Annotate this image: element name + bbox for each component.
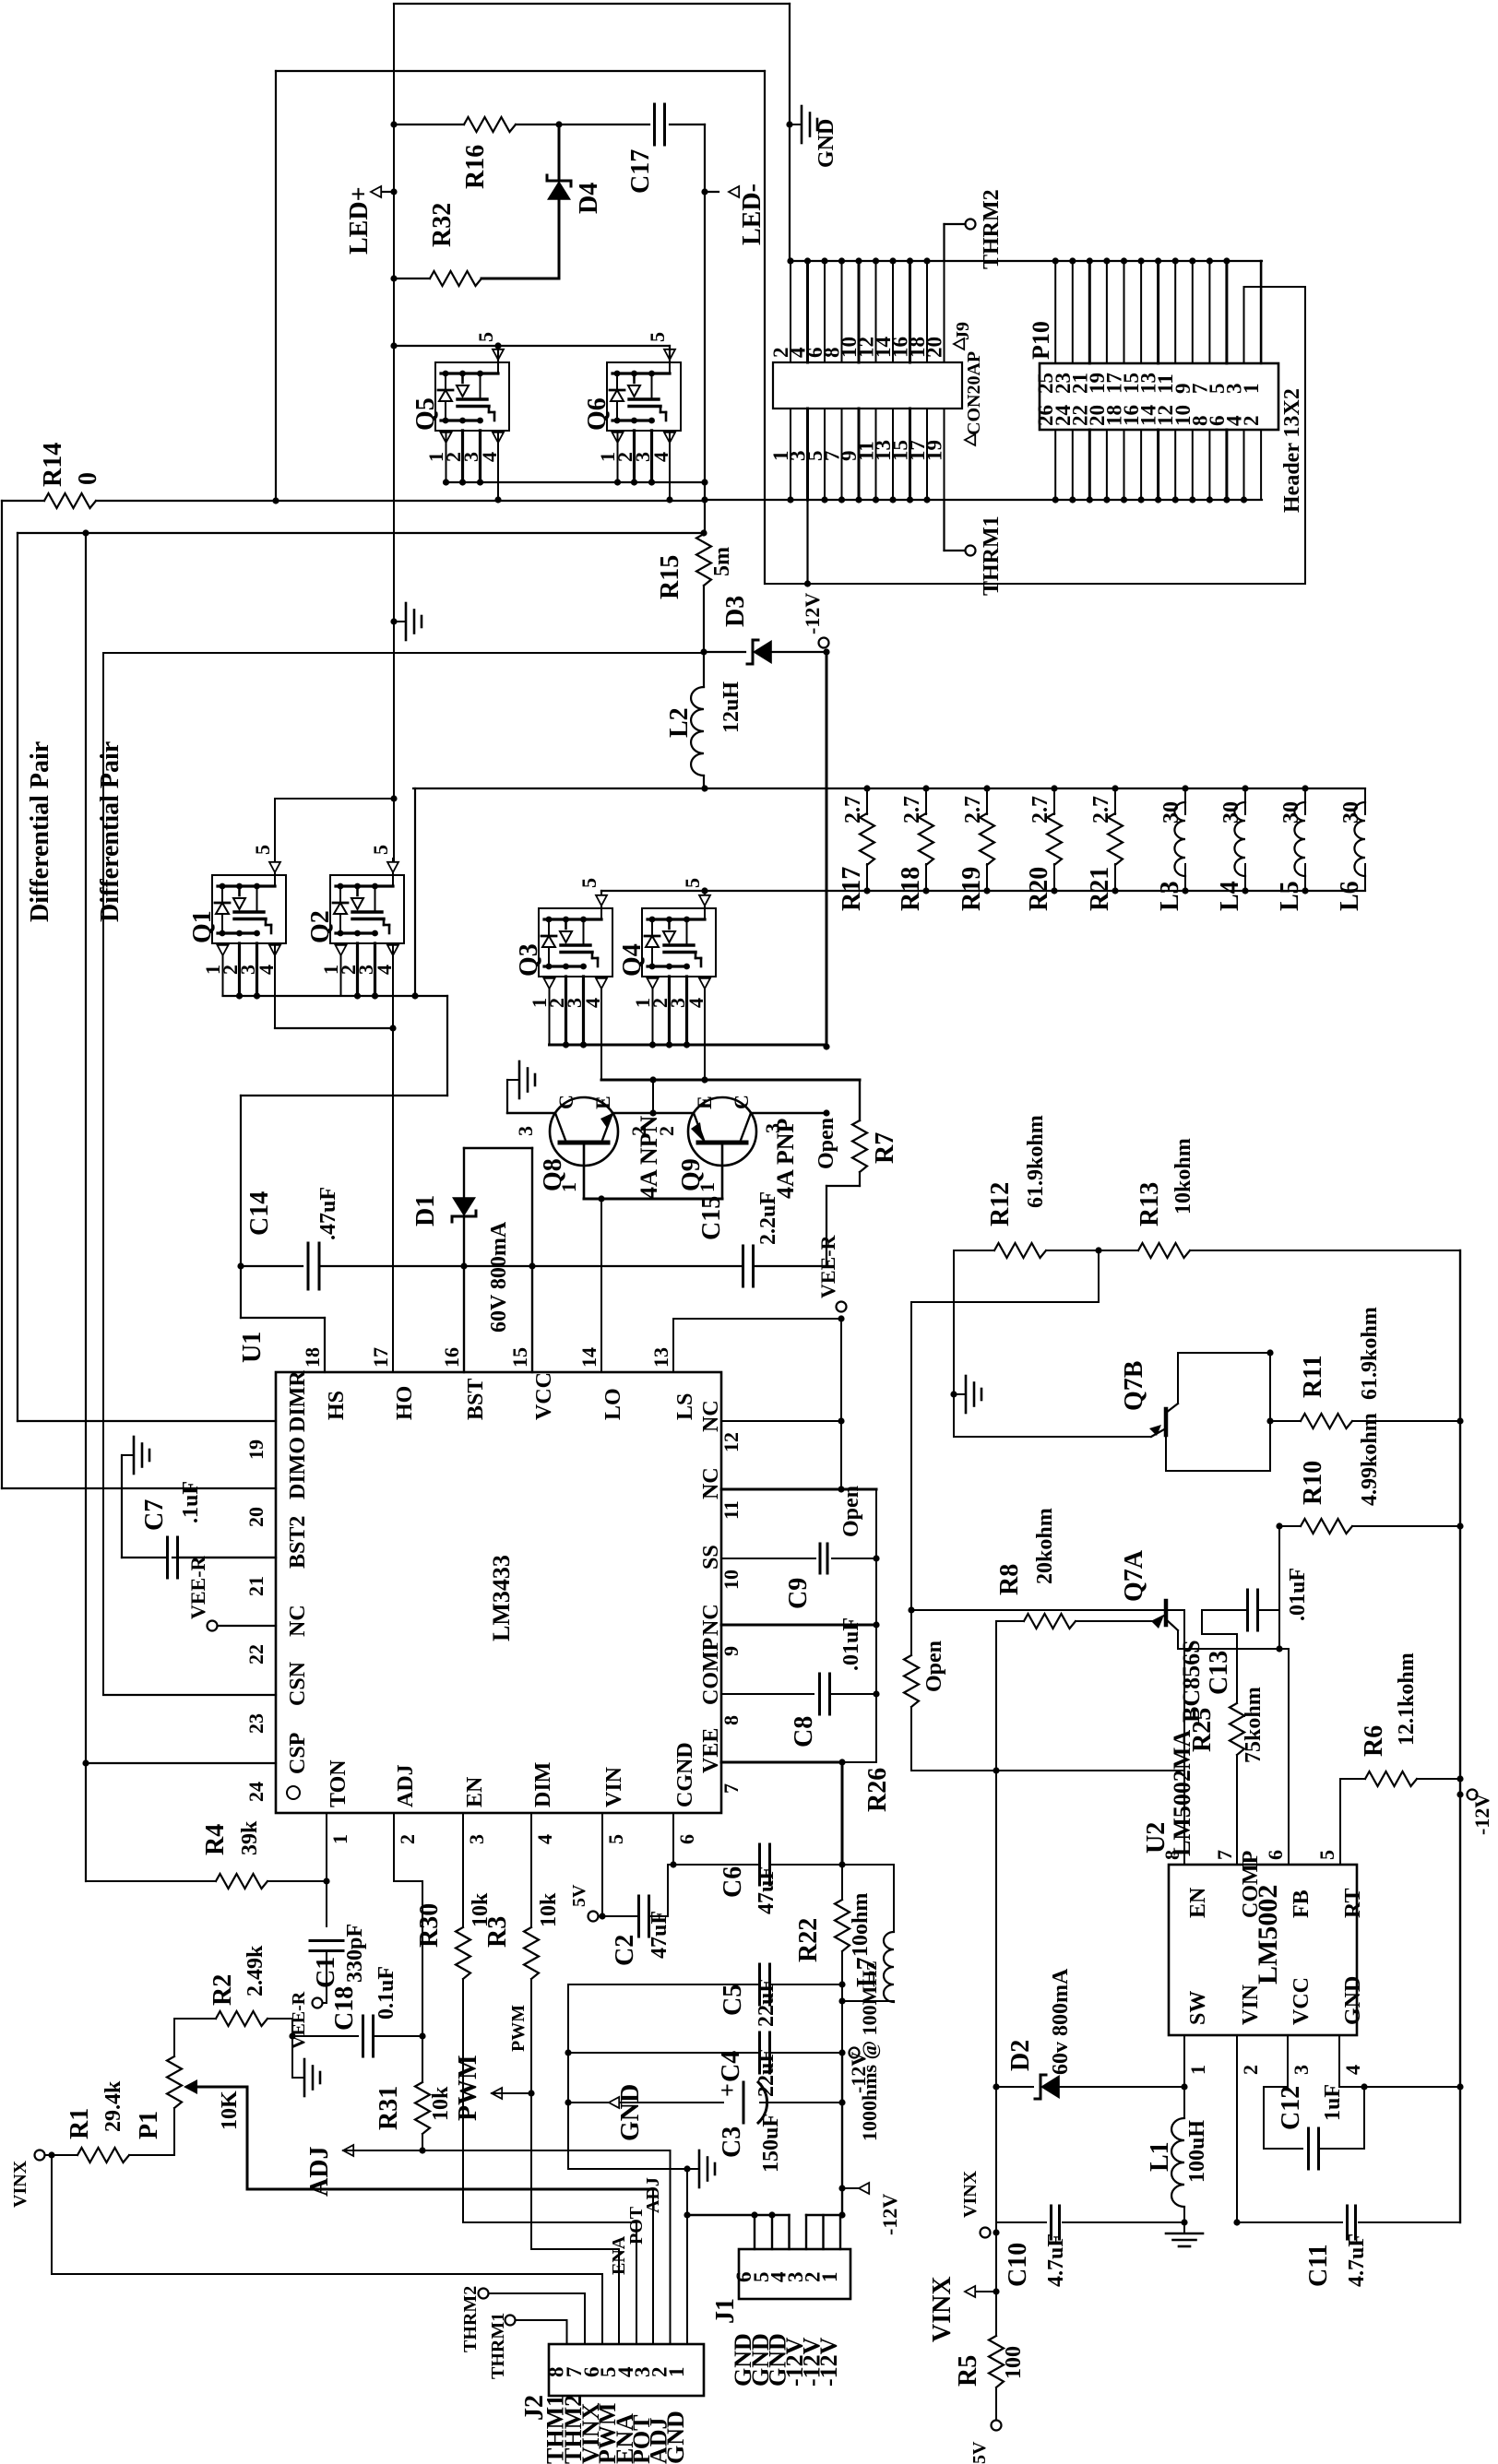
svg-text:Open: Open — [839, 1486, 863, 1537]
svg-text:21: 21 — [244, 1576, 267, 1596]
svg-text:4.7uF: 4.7uF — [1044, 2233, 1068, 2287]
wire VIN — [1236, 2035, 1238, 2222]
ground at Q7B emitter — [950, 1391, 957, 1397]
wire LS to VEE-R — [672, 1319, 674, 1372]
svg-text:61.9kohm: 61.9kohm — [1358, 1307, 1382, 1400]
wire DIMO — [2, 1487, 276, 1489]
svg-text:R8: R8 — [995, 1564, 1024, 1595]
svg-text:THRM1: THRM1 — [488, 2313, 508, 2379]
svg-text:-12V: -12V — [1470, 1794, 1493, 1835]
svg-text:R7: R7 — [871, 1132, 899, 1164]
svg-text:-12V: -12V — [801, 593, 824, 634]
svg-text:13: 13 — [649, 1347, 672, 1368]
svg-text:R4: R4 — [201, 1824, 230, 1855]
svg-text:1: 1 — [818, 2272, 841, 2283]
svg-text:.01uF: .01uF — [839, 1617, 863, 1671]
svg-text:2.49k: 2.49k — [244, 1945, 267, 1996]
wire GND to J1 — [687, 2214, 790, 2216]
resistor R12 — [994, 1243, 1046, 1258]
terminal -12V — [1468, 1790, 1478, 1800]
svg-text:R16: R16 — [461, 145, 490, 189]
inductor L2 — [691, 687, 704, 776]
resistor R11 — [1270, 1420, 1301, 1422]
capacitor C13 — [1246, 1590, 1249, 1630]
svg-text:C18: C18 — [330, 1986, 359, 2031]
svg-text:CGND: CGND — [673, 1742, 697, 1807]
svg-text:LO: LO — [601, 1388, 625, 1420]
svg-text:L4: L4 — [1216, 881, 1244, 911]
capacitor C1 — [310, 1939, 343, 1942]
wire CSP sense — [18, 532, 704, 534]
svg-text:ADJ: ADJ — [394, 1764, 418, 1807]
svg-text:COMP: COMP — [699, 1638, 723, 1705]
svg-text:C10: C10 — [1004, 2243, 1032, 2287]
svg-text:PWM: PWM — [508, 2005, 529, 2052]
transistor Q7B — [1164, 1409, 1169, 1435]
svg-text:J2: J2 — [520, 2395, 549, 2421]
resistor R30 — [462, 1842, 464, 1927]
svg-text:12: 12 — [719, 1432, 743, 1452]
terminal VINX — [35, 2150, 45, 2161]
wire P10 pin3 route — [1243, 287, 1245, 363]
svg-text:VCC: VCC — [1290, 1977, 1314, 2025]
svg-text:.47uF: .47uF — [316, 1187, 340, 1240]
svg-text:Q8: Q8 — [539, 1158, 567, 1191]
svg-text:4: 4 — [1341, 2065, 1364, 2075]
svg-text:ADJ: ADJ — [643, 2177, 663, 2213]
svg-text:1000hms @ 100MHz: 1000hms @ 100MHz — [858, 1961, 881, 2141]
svg-text:5: 5 — [1315, 1850, 1338, 1860]
svg-text:10k: 10k — [429, 2086, 453, 2121]
svg-text:C3: C3 — [718, 2126, 746, 2158]
svg-text:23: 23 — [244, 1713, 267, 1734]
wire VINX to J2 — [51, 2155, 53, 2274]
op-amp U1 LM3433 — [276, 1372, 721, 1813]
svg-text:16: 16 — [440, 1347, 463, 1368]
svg-text:2: 2 — [396, 1834, 419, 1844]
wire base drive — [584, 1198, 722, 1201]
svg-text:D2: D2 — [1006, 2040, 1035, 2071]
svg-text:ADJ: ADJ — [305, 2147, 334, 2197]
terminal THRM1 at J2 — [566, 2320, 568, 2344]
wire DIMR — [18, 1420, 276, 1422]
svg-text:-12V: -12V — [878, 2194, 901, 2235]
svg-text:Q1: Q1 — [188, 910, 217, 943]
svg-text:19: 19 — [923, 440, 946, 461]
svg-text:C12: C12 — [1277, 2086, 1305, 2130]
svg-text:R10: R10 — [1299, 1461, 1327, 1505]
svg-text:E: E — [693, 1096, 716, 1109]
resistor R13 — [1138, 1243, 1190, 1258]
svg-text:EN: EN — [1186, 1887, 1210, 1918]
svg-text:R21: R21 — [1086, 867, 1114, 911]
wire -12V to J1 — [841, 2053, 843, 2215]
svg-text:5: 5 — [577, 878, 600, 888]
svg-text:NC: NC — [699, 1467, 723, 1499]
svg-text:Q7A: Q7A — [1120, 1549, 1148, 1602]
svg-text:12.1kohm: 12.1kohm — [1395, 1653, 1419, 1746]
svg-text:330pF: 330pF — [343, 1924, 367, 1983]
inductor L7 — [884, 1932, 894, 2002]
svg-text:U2: U2 — [1142, 1822, 1171, 1854]
wire -12V input row — [103, 652, 704, 654]
svg-text:TON: TON — [327, 1759, 351, 1807]
svg-text:5: 5 — [369, 845, 392, 855]
svg-text:J1: J1 — [711, 2298, 740, 2324]
resistor R14 — [2, 500, 44, 502]
svg-text:30: 30 — [1339, 801, 1363, 823]
svg-text:R11: R11 — [1299, 1355, 1327, 1398]
wire P10 pin1 — [1260, 261, 1263, 363]
svg-text:3: 3 — [465, 1834, 488, 1844]
svg-text:C15: C15 — [697, 1196, 726, 1240]
svg-text:19: 19 — [244, 1439, 267, 1460]
svg-text:GND: GND — [814, 119, 838, 168]
svg-text:PWM: PWM — [454, 2055, 482, 2121]
svg-text:R22: R22 — [794, 1918, 823, 1962]
svg-text:C5: C5 — [719, 1984, 747, 2016]
svg-text:11: 11 — [719, 1500, 743, 1520]
ground — [786, 121, 792, 127]
svg-text:R31: R31 — [374, 2086, 403, 2130]
svg-text:Differential Pair: Differential Pair — [96, 741, 125, 922]
svg-text:L2: L2 — [665, 707, 694, 738]
capacitor C11 — [1237, 2221, 1342, 2223]
wire CSN — [103, 1694, 276, 1696]
svg-text:R18: R18 — [897, 867, 925, 911]
op-amp U2 LM5002 — [1169, 1865, 1357, 2035]
svg-text:R15: R15 — [656, 555, 684, 599]
transistor Q6 — [607, 362, 681, 431]
terminal VEE-R pin22 — [208, 1621, 218, 1631]
junction LED- bus — [701, 496, 707, 503]
svg-text:4: 4 — [684, 998, 707, 1008]
wire HS sense — [241, 1095, 447, 1096]
svg-text:VIN: VIN — [602, 1766, 626, 1807]
svg-text:U1: U1 — [238, 1332, 267, 1363]
svg-text:10K: 10K — [218, 2091, 242, 2130]
svg-text:2.2uF: 2.2uF — [756, 1191, 780, 1245]
svg-text:C2: C2 — [611, 1935, 639, 1966]
resistor R16 — [394, 124, 464, 125]
resistor R22 — [835, 1900, 850, 1951]
svg-text:VINX: VINX — [10, 2160, 30, 2208]
svg-text:15: 15 — [508, 1347, 531, 1368]
svg-text:R5: R5 — [954, 2355, 982, 2387]
svg-text:30: 30 — [1219, 801, 1243, 823]
svg-text:6: 6 — [1264, 1850, 1287, 1860]
connector P10 Header 13X2 — [1040, 363, 1278, 430]
wire Q3 Q4 sources — [550, 1044, 827, 1047]
svg-text:DIMO: DIMO — [286, 1437, 310, 1499]
svg-text:THRM2: THRM2 — [980, 189, 1004, 269]
svg-text:Q7B: Q7B — [1120, 1361, 1148, 1411]
capacitor C5 — [568, 1984, 760, 1985]
transistor Q7A — [1164, 1601, 1169, 1625]
capacitor C14 — [241, 1265, 303, 1267]
svg-text:R32: R32 — [428, 203, 457, 247]
wire -12V rail — [826, 652, 828, 1047]
svg-text:P10: P10 — [1028, 321, 1054, 360]
svg-text:3: 3 — [1290, 2065, 1313, 2075]
svg-text:R3: R3 — [483, 1916, 512, 1948]
capacitor C10 — [996, 2221, 1046, 2223]
ground at Q8 collector — [507, 1112, 555, 1114]
svg-text:NC: NC — [699, 1604, 723, 1636]
svg-text:CON20AP: CON20AP — [964, 351, 984, 435]
connector J9 CON20AP — [773, 362, 962, 409]
svg-text:LED-: LED- — [738, 184, 767, 245]
svg-text:3: 3 — [514, 1126, 537, 1136]
svg-text:L5: L5 — [1276, 881, 1304, 911]
capacitor C3 — [565, 2099, 571, 2105]
transistor Q2 — [330, 875, 404, 943]
svg-text:5: 5 — [251, 845, 274, 855]
svg-text:VEE: VEE — [699, 1728, 723, 1773]
svg-text:5V: 5V — [569, 1884, 589, 1907]
wire CSP — [86, 1762, 276, 1764]
svg-text:VINX: VINX — [928, 2276, 957, 2342]
svg-text:2.7: 2.7 — [961, 796, 985, 823]
resistor R26 — [908, 1606, 914, 1613]
svg-text:10ohm: 10ohm — [849, 1893, 873, 1957]
wire VEE — [721, 1761, 842, 1764]
svg-text:10k: 10k — [537, 1892, 561, 1927]
wire CGND — [672, 1842, 674, 1865]
svg-text:2.7: 2.7 — [900, 796, 924, 823]
svg-text:12uH: 12uH — [719, 681, 743, 733]
wire Q1 Q2 sources — [223, 995, 448, 997]
svg-text:22uF: 22uF — [755, 1979, 779, 2027]
terminal ADJ — [343, 2145, 353, 2156]
svg-text:.01uF: .01uF — [1286, 1568, 1310, 1621]
svg-text:10kohm: 10kohm — [1171, 1138, 1195, 1214]
svg-text:GND: GND — [616, 2084, 645, 2141]
transistor Q3 — [539, 908, 612, 977]
wire ADJ pin2 — [393, 1842, 395, 1881]
svg-text:2.7: 2.7 — [841, 796, 865, 823]
svg-text:D1: D1 — [411, 1195, 440, 1226]
ground — [568, 2168, 687, 2170]
capacitor C9 — [721, 1558, 815, 1559]
svg-text:Q3: Q3 — [515, 943, 543, 977]
svg-text:Open: Open — [922, 1641, 946, 1692]
svg-text:BST2: BST2 — [286, 1516, 310, 1569]
svg-text:C11: C11 — [1304, 2244, 1333, 2287]
resistor R2 — [174, 2018, 216, 2020]
svg-text:C7: C7 — [140, 1499, 169, 1531]
capacitor C17 — [653, 104, 656, 145]
svg-text:R20: R20 — [1025, 867, 1053, 911]
ground at C18 — [292, 2077, 304, 2079]
svg-text:7: 7 — [719, 1783, 743, 1794]
svg-text:R6: R6 — [1360, 1725, 1388, 1757]
svg-text:47uF: 47uF — [755, 1866, 779, 1914]
svg-text:VINX: VINX — [960, 2170, 981, 2218]
wire EN net — [911, 1609, 1184, 1611]
transistor Q8 — [550, 1097, 618, 1166]
svg-text:GND: GND — [662, 2411, 689, 2464]
transistor Q9 — [688, 1097, 756, 1166]
node LED+ — [390, 188, 397, 195]
svg-text:HS: HS — [325, 1391, 349, 1420]
svg-text:VEE-R: VEE-R — [186, 1555, 209, 1619]
svg-text:C1: C1 — [312, 1957, 340, 1988]
svg-text:24: 24 — [244, 1782, 267, 1802]
svg-text:Open: Open — [814, 1118, 838, 1169]
capacitor C6 — [758, 1844, 761, 1885]
svg-text:SW: SW — [1186, 1991, 1210, 2025]
svg-text:22uF: 22uF — [755, 2049, 779, 2097]
wire Q5 Q6 drains — [394, 345, 670, 347]
svg-text:VIN: VIN — [1239, 1984, 1263, 2025]
svg-text:20: 20 — [923, 337, 946, 358]
svg-text:LED+: LED+ — [345, 186, 374, 255]
terminal 5V — [601, 1842, 603, 1916]
svg-text:5m: 5m — [710, 547, 734, 576]
svg-text:C13: C13 — [1205, 1651, 1233, 1695]
svg-text:E: E — [591, 1096, 614, 1109]
svg-text:0.1uF: 0.1uF — [374, 1966, 398, 2020]
terminal VEE-R — [837, 1302, 847, 1312]
wire -12V right rail — [1459, 1250, 1461, 2222]
svg-text:P1: P1 — [135, 2111, 163, 2139]
inductor L1 — [1171, 2118, 1184, 2207]
svg-text:39k: 39k — [238, 1820, 262, 1855]
svg-text:CSP: CSP — [286, 1733, 310, 1774]
connector J2 — [549, 2344, 704, 2396]
svg-text:NC: NC — [286, 1605, 310, 1637]
svg-text:DIM: DIM — [531, 1762, 555, 1807]
svg-text:-12V: -12V — [815, 2337, 842, 2387]
svg-text:DIMR: DIMR — [286, 1370, 310, 1432]
wire SW — [1183, 2035, 1185, 2087]
ground on drain rail — [394, 621, 406, 622]
terminal VEE-R at C1 — [313, 1998, 323, 2008]
transistor Q5 — [435, 362, 509, 431]
svg-text:4A NPN: 4A NPN — [636, 1116, 662, 1200]
svg-text:C14: C14 — [245, 1191, 274, 1236]
svg-text:R26: R26 — [863, 1768, 892, 1812]
resistor R6 — [1339, 1779, 1341, 1865]
svg-text:VEE-R: VEE-R — [816, 1234, 839, 1298]
svg-text:5: 5 — [604, 1834, 627, 1844]
svg-text:NC: NC — [699, 1400, 723, 1432]
svg-text:30: 30 — [1279, 801, 1303, 823]
svg-text:1: 1 — [1240, 384, 1263, 395]
svg-text:LS: LS — [673, 1393, 697, 1420]
svg-text:5: 5 — [474, 332, 497, 342]
diode D2 — [993, 2083, 999, 2090]
wire thermal bus — [790, 260, 1262, 262]
ground at C7 — [121, 1455, 123, 1558]
svg-text:C: C — [554, 1095, 577, 1109]
svg-text:8: 8 — [1160, 1850, 1183, 1860]
svg-text:L3: L3 — [1156, 881, 1184, 911]
svg-text:Q9: Q9 — [677, 1158, 706, 1191]
svg-text:60V 800mA: 60V 800mA — [487, 1221, 511, 1333]
resistor R5 — [989, 2336, 1004, 2387]
resistor R32 — [390, 275, 397, 281]
svg-text:1: 1 — [1186, 2065, 1209, 2075]
wire sense rail — [601, 890, 1365, 892]
svg-text:L6: L6 — [1336, 881, 1364, 911]
svg-text:Q5: Q5 — [411, 397, 440, 431]
terminal GND — [609, 2097, 619, 2108]
svg-text:61.9kohm: 61.9kohm — [1024, 1115, 1048, 1208]
svg-text:GND: GND — [1341, 1976, 1365, 2025]
svg-text:4.7uF: 4.7uF — [1345, 2233, 1369, 2287]
svg-text:SS: SS — [699, 1545, 723, 1570]
svg-text:BST: BST — [464, 1379, 488, 1420]
wire ground rail — [567, 1984, 569, 2169]
svg-text:D4: D4 — [575, 183, 603, 214]
wire riser — [414, 788, 416, 996]
svg-text:C: C — [730, 1095, 753, 1109]
svg-text:17: 17 — [369, 1347, 392, 1368]
resistor R7 — [859, 1080, 861, 1120]
svg-text:20kohm: 20kohm — [1033, 1508, 1057, 1584]
terminal VINX node — [995, 2222, 997, 2336]
svg-text:C9: C9 — [784, 1578, 813, 1609]
svg-text:LM5002MA: LM5002MA — [1169, 1730, 1195, 1856]
svg-text:8: 8 — [719, 1715, 743, 1725]
resistor R31 — [415, 2082, 430, 2134]
svg-text:FB: FB — [1290, 1889, 1314, 1918]
diode D1 — [463, 1148, 465, 1197]
svg-text:Header 13X2: Header 13X2 — [1280, 388, 1304, 513]
svg-text:Q4: Q4 — [618, 943, 647, 977]
svg-text:150uF: 150uF — [759, 2114, 783, 2173]
svg-text:EN: EN — [463, 1776, 487, 1807]
transistor Q4 — [642, 908, 716, 977]
svg-text:4: 4 — [533, 1834, 556, 1844]
connector J1 — [739, 2249, 850, 2299]
svg-text:R1: R1 — [65, 2108, 94, 2139]
svg-text:29.4k: 29.4k — [101, 2080, 125, 2132]
svg-text:HO: HO — [393, 1386, 417, 1420]
svg-text:Q2: Q2 — [306, 910, 335, 943]
svg-text:6: 6 — [675, 1834, 698, 1844]
resistor R25 — [1230, 1703, 1244, 1755]
svg-text:C17: C17 — [626, 149, 655, 194]
svg-text:LM3433: LM3433 — [488, 1555, 515, 1641]
terminal THRM2 — [943, 224, 945, 261]
svg-text:4.99kohm: 4.99kohm — [1358, 1413, 1382, 1506]
terminal -12V — [823, 648, 829, 655]
svg-text:C8: C8 — [790, 1716, 818, 1747]
svg-text:1uF: 1uF — [1321, 2084, 1345, 2121]
capacitor C2 — [599, 1915, 639, 1917]
resistor R15 — [700, 529, 707, 536]
svg-text:.1uF: .1uF — [179, 1481, 203, 1523]
svg-text:2.7: 2.7 — [1089, 796, 1113, 823]
svg-text:18: 18 — [301, 1347, 324, 1368]
svg-text:L1: L1 — [1146, 2141, 1174, 2172]
wire LO gate net — [601, 1079, 860, 1082]
terminal THRM2 at J2 — [584, 2293, 586, 2344]
diode D3 — [704, 651, 745, 653]
svg-text:2.7: 2.7 — [1028, 796, 1052, 823]
svg-text:5: 5 — [646, 332, 669, 342]
svg-text:R13: R13 — [1135, 1182, 1164, 1226]
wire switch node rail — [413, 788, 705, 789]
terminal -12V arrow — [838, 2185, 845, 2191]
svg-text:4A PNP: 4A PNP — [772, 1119, 799, 1200]
terminal -12V at C4 — [850, 2048, 860, 2058]
svg-text:47uF: 47uF — [648, 1911, 672, 1959]
wire to GND bus — [394, 3, 790, 5]
